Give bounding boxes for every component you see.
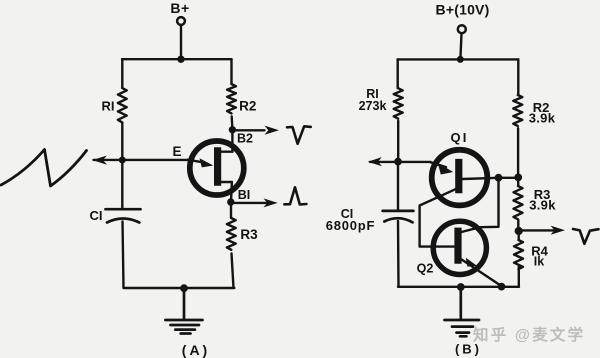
arrow output B2 (A) <box>236 129 264 131</box>
wire: bottom rail (B) <box>398 286 519 288</box>
svg-text:知乎 @麦文学: 知乎 @麦文学 <box>473 325 585 344</box>
resistor R2 (B) <box>513 95 522 126</box>
transistor Q1 body (B) <box>432 150 488 206</box>
transistor base bar (A) <box>214 147 221 186</box>
svg-text:CI: CI <box>90 208 103 223</box>
wire: right branch upper (A) <box>230 59 232 84</box>
resistor R3 (B) <box>514 186 523 219</box>
junction dot B1 (A) <box>227 198 234 205</box>
junction dot B2 (A) <box>229 126 236 133</box>
waveform negative spike (B) <box>573 229 599 244</box>
svg-text:B2: B2 <box>237 132 253 146</box>
wire: E node to capacitor (A) <box>121 160 123 209</box>
Q1 base lead right (B) <box>462 178 518 179</box>
wire: transistor to B1 node (A) <box>230 182 233 202</box>
wire: left branch upper (A) <box>121 59 123 88</box>
wire: emitter line E (A) <box>94 159 190 161</box>
svg-text:R2: R2 <box>239 99 256 114</box>
svg-text:RI: RI <box>102 99 115 114</box>
wire: B+ to top rail (A) <box>180 25 182 59</box>
svg-text:E: E <box>172 144 181 159</box>
wire: R4 to bottom rail (B) <box>518 266 520 287</box>
wire: junction to R4 (B) <box>518 231 520 240</box>
svg-text:B+: B+ <box>170 0 189 16</box>
capacitor C1 top plate (A) <box>106 208 141 211</box>
svg-text:QI: QI <box>450 130 468 145</box>
svg-text:(A): (A) <box>182 342 210 358</box>
svg-text:273k: 273k <box>359 99 387 113</box>
base-two stub (A) <box>221 150 233 152</box>
wire: top rail (A) <box>122 58 232 60</box>
junction dot E (A) <box>119 157 126 164</box>
junction dot top rail (B) <box>457 56 464 63</box>
resistor R1 (A) <box>118 88 127 122</box>
resistor R4 (B) <box>514 240 523 269</box>
base-one stub (A) <box>221 181 232 183</box>
junction dot R2-R3 (B) <box>514 174 522 182</box>
sawtooth waveform (A) <box>1 150 87 187</box>
Q2 emitter lead with arrow (B) <box>462 260 501 286</box>
wire: B1 node to R3 (A) <box>230 202 232 218</box>
ground (B) <box>445 287 480 336</box>
svg-text:B+(10V): B+(10V) <box>436 1 490 17</box>
capacitor C1 bottom plate (B) <box>384 218 412 222</box>
wire: R1 to E node (A) <box>121 123 123 161</box>
resistor R1 (B) <box>394 88 403 118</box>
wire: bottom rail (A) <box>124 287 235 289</box>
arrowhead left E (B) <box>368 157 382 166</box>
junction dot bottom rail (A) <box>180 284 188 292</box>
wire: capacitor to bottom rail (A) <box>123 222 124 288</box>
wire: R2 to B2 node (A) <box>230 117 233 130</box>
wire: emitter line E (B) <box>370 161 431 163</box>
wire: R2 to base junction (B) <box>517 128 519 178</box>
svg-text:Ik: Ik <box>534 255 544 269</box>
junction dot Q1 base / Q2 collector (B) <box>495 174 503 182</box>
junction dot output (B) <box>515 227 523 235</box>
wire: R3 to bottom rail (A) <box>232 254 234 288</box>
wire: E node to capacitor (B) <box>397 162 399 211</box>
wire: top rail (B) <box>398 58 519 60</box>
wire: capacitor to bottom rail (B) <box>397 221 400 287</box>
wire: B+ to top rail (B) <box>460 34 461 59</box>
arrowhead left E (A) <box>93 156 108 165</box>
wire: junction to R3 (B) <box>517 177 519 186</box>
junction dot Q2 emitter on rail (B) <box>498 283 506 291</box>
Q1 collector lead to Q2 base (B) <box>420 189 456 246</box>
svg-text:R3: R3 <box>240 227 258 242</box>
wire: R3 to output junction (B) <box>517 220 519 231</box>
svg-text:3.9k: 3.9k <box>529 111 556 126</box>
transistor Q2 body (B) <box>433 221 486 274</box>
emitter lead with arrow (A) <box>188 160 202 163</box>
svg-text:6800pF: 6800pF <box>326 218 376 233</box>
capacitor C1 top plate (B) <box>383 210 414 213</box>
arrow output (B) <box>523 229 554 231</box>
junction dot top rail (A) <box>177 56 184 63</box>
svg-text:BI: BI <box>238 188 251 202</box>
junction dot E (B) <box>394 158 402 166</box>
transistor Q UJT body (A) <box>190 141 244 195</box>
wire: left branch upper (B) <box>397 59 399 88</box>
Q2 collector lead up (B) <box>462 178 499 232</box>
ground (A) <box>165 288 202 333</box>
terminal B+ (B) <box>458 25 466 33</box>
resistor R3 (A) <box>227 218 236 250</box>
waveform positive spike (A) <box>284 187 306 204</box>
wire: right branch upper (B) <box>517 59 519 95</box>
capacitor C1 bottom plate (A) <box>107 219 139 223</box>
waveform negative spike (A) <box>287 126 311 144</box>
resistor R2 (A) <box>227 84 236 113</box>
svg-text:3.9k: 3.9k <box>529 198 556 213</box>
svg-text:Q2: Q2 <box>417 262 434 276</box>
transistor Q1 base bar (B) <box>455 159 462 193</box>
wire: R1 to E node (B) <box>397 121 399 162</box>
junction dot ground on rail (B) <box>457 283 465 291</box>
Q1 emitter lead with arrow (B) <box>431 162 447 167</box>
wire: B2 node into transistor (A) <box>231 130 233 152</box>
transistor Q2 base bar (B) <box>454 228 461 264</box>
arrow output B1 (A) <box>235 202 270 204</box>
terminal B+ (A) <box>177 17 185 25</box>
